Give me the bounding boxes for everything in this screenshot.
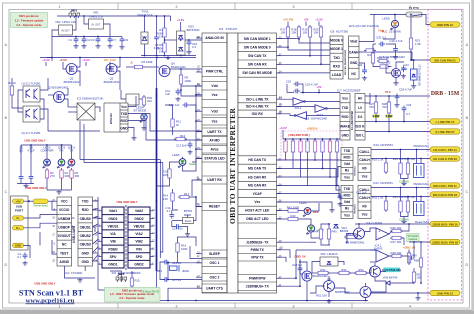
node +3.3V analog — [177, 18, 185, 31]
svg-text:Vdd: Vdd — [211, 109, 217, 113]
svg-text:Rs: Rs — [345, 169, 349, 173]
svg-text:4MHz: 4MHz — [182, 269, 190, 273]
svg-text:LED8: LED8 — [383, 17, 390, 21]
resistor R45 10K — [327, 227, 337, 241]
svg-text:13: 13 — [95, 234, 98, 237]
resistor R42 200E — [286, 206, 300, 213]
capacitor C20 0.2 — [376, 36, 386, 47]
svg-text:Q5 MMBT5401: Q5 MMBT5401 — [346, 241, 365, 245]
wire mid power rail y57 — [40, 57, 196, 59]
svg-text:25: 25 — [280, 246, 283, 249]
svg-text:R40 100K: R40 100K — [346, 232, 359, 236]
svg-text:17: 17 — [52, 234, 55, 237]
diode VD2 LM431 box — [320, 252, 338, 266]
svg-text:IC10 MCP2551: IC10 MCP2551 — [373, 143, 393, 147]
info box CAN pullups R29-R36 — [281, 131, 342, 160]
ground cap C2 — [81, 44, 86, 48]
svg-text:UART CTS: UART CTS — [206, 286, 223, 290]
svg-text:C25 560: C25 560 — [399, 218, 409, 222]
svg-text:SW CAN TRANSCEIVER: SW CAN TRANSCEIVER — [344, 49, 347, 75]
svg-text:GND: GND — [82, 251, 90, 255]
svg-text:+3.3V: +3.3V — [82, 58, 90, 62]
svg-text:TXD: TXD — [344, 187, 351, 191]
wire vbat top right — [412, 15, 422, 17]
resistor R19 10K — [302, 25, 311, 39]
svg-text:IC8 NCV7356: IC8 NCV7356 — [330, 30, 348, 34]
svg-text:R54: R54 — [358, 268, 364, 272]
wire LED feed rail — [21, 144, 72, 146]
resistor R53 300R — [337, 268, 351, 275]
svg-text:C18 0.1: C18 0.1 — [292, 263, 302, 267]
svg-text:R47 10K: R47 10K — [391, 240, 402, 244]
svg-text:10K: 10K — [292, 31, 297, 35]
svg-text:OBD TO UART INTERPRETER: OBD TO UART INTERPRETER — [228, 108, 237, 224]
wire LED5 net — [182, 157, 184, 159]
wire j1850 bus+ chain — [277, 265, 301, 286]
info box SW2 positions — [105, 288, 161, 303]
svg-text:Reset: Reset — [185, 220, 192, 223]
op-amp U IC2 FT232RL right pins — [78, 197, 98, 266]
switch SW1 — [69, 9, 80, 19]
svg-text:1uF: 1uF — [165, 92, 170, 96]
resistor R13 220 — [162, 167, 171, 180]
svg-text:IC7 MCZ33290EF: IC7 MCZ33290EF — [337, 89, 361, 93]
resistor R20 10K — [313, 25, 322, 39]
connector J1 DRB-15M outline — [428, 10, 462, 301]
ground C11 — [175, 97, 180, 101]
svg-text:+5V: +5V — [303, 18, 308, 22]
op-amp U IC10 MCP2551 hs-can — [341, 148, 371, 181]
svg-text:Q3 BSS84/2402: Q3 BSS84/2402 — [48, 86, 69, 90]
svg-text:C: C — [466, 190, 469, 194]
resistor R15 10K — [130, 276, 140, 288]
svg-text:100K: 100K — [181, 247, 188, 251]
svg-text:D+: D+ — [16, 226, 20, 230]
svg-text:BSS84/2402: BSS84/2402 — [104, 80, 120, 84]
svg-text:R48 10K: R48 10K — [391, 251, 402, 255]
svg-text:Vss: Vss — [344, 213, 350, 217]
resistor R36 510R pullup — [335, 139, 338, 154]
svg-text:330: 330 — [75, 174, 80, 178]
svg-text:R22 1.3K: R22 1.3K — [377, 56, 389, 60]
capacitor C19 4.7uF — [389, 39, 402, 53]
svg-text:220: 220 — [147, 99, 152, 103]
svg-text:IC3 SN65HVD(ST14): IC3 SN65HVD(ST14) — [77, 97, 104, 101]
svg-text:4: 4 — [409, 305, 411, 309]
node +5V iso — [316, 85, 321, 93]
wire 3.3V rail down — [46, 57, 52, 59]
svg-text:Vbat: Vbat — [350, 40, 358, 44]
svg-text:B: B — [466, 116, 469, 120]
svg-text:Vss: Vss — [362, 213, 368, 217]
resistor R30 510R pullup — [291, 139, 294, 154]
node GND PIN 13 — [430, 290, 460, 295]
resistor R47 10K — [390, 236, 403, 244]
wire hs-can termination network — [371, 144, 430, 186]
op-amp U IC8 NCV7356 swcan transceiver — [330, 36, 359, 79]
resistor R35 510R pullup — [328, 139, 331, 154]
wire swcan misc nets — [373, 65, 378, 67]
svg-text:DC_5.0V: DC_5.0V — [104, 58, 115, 62]
wire IC5 left pin stubs — [192, 38, 202, 288]
svg-text:TEST: TEST — [60, 251, 68, 255]
wire Q11 nets — [299, 259, 301, 266]
node +3.3V left — [42, 58, 50, 66]
svg-text:HOST ACT LED: HOST ACT LED — [245, 209, 270, 213]
svg-text:SW CAN PIN 01: SW CAN PIN 01 — [434, 58, 456, 62]
svg-text:CBUS3: CBUS3 — [80, 243, 91, 247]
capacitor C14 0.1 — [165, 206, 174, 219]
svg-text:Vss: Vss — [344, 175, 350, 179]
wire R23 net — [410, 15, 412, 37]
svg-text:(2) IC1 TLP281: (2) IC1 TLP281 — [21, 131, 41, 135]
svg-text:+5V: +5V — [316, 85, 321, 89]
svg-text:+3.3V: +3.3V — [177, 18, 185, 22]
svg-text:C: C — [5, 190, 8, 194]
svg-text:GND2: GND2 — [134, 263, 143, 267]
svg-text:B: B — [5, 116, 8, 120]
wire pullup tops — [283, 138, 340, 140]
op-amp U IC11 MCP2551 ms-can — [341, 186, 371, 219]
svg-text:OBD ACT LED: OBD ACT LED — [246, 217, 269, 221]
node +5V swcan — [303, 18, 308, 27]
inductor L1 ferrite bead — [33, 199, 48, 208]
wire j1850 bus- chain — [277, 241, 311, 243]
svg-text:13: 13 — [279, 96, 282, 99]
svg-text:09: 09 — [279, 103, 282, 106]
resistor R17b 10K — [280, 25, 289, 39]
svg-text:MMBT5640: MMBT5640 — [335, 290, 350, 294]
transistor Q6 MMBT3906 — [324, 277, 335, 292]
regulator VR1 L4931C.B — [89, 11, 104, 30]
wire Q12 nets — [386, 64, 392, 73]
connector P2 aux box — [126, 94, 139, 105]
svg-text:VD6 BAT46: VD6 BAT46 — [383, 276, 398, 280]
svg-text:USB GND ONLY: USB GND ONLY — [34, 282, 55, 286]
capacitor C20 4.7uF — [294, 83, 319, 94]
svg-text:SW CAN TX: SW CAN TX — [248, 54, 267, 58]
svg-text:BT MODE: BT MODE — [134, 109, 147, 113]
svg-text:RXD: RXD — [82, 208, 90, 212]
resistor R17 4K7 — [178, 192, 191, 199]
svg-text:0.1: 0.1 — [406, 112, 410, 116]
svg-text:PLC: PLC — [382, 30, 388, 34]
svg-text:VD5 MMBZ27VCL33: VD5 MMBZ27VCL33 — [420, 64, 422, 86]
svg-text:2: 2 — [176, 5, 178, 9]
svg-text:PESD2CAN: PESD2CAN — [413, 144, 428, 148]
svg-text:C26 4.7uF: C26 4.7uF — [399, 88, 412, 92]
svg-text:8: 8 — [54, 242, 56, 245]
capacitor C5 0.1 — [19, 145, 24, 181]
svg-text:VIA2: VIA2 — [135, 232, 142, 236]
resistor R14 10K — [163, 191, 174, 203]
svg-text:VBUS1: VBUS1 — [108, 224, 119, 228]
svg-text:L4931 C.B: L4931 C.B — [89, 15, 102, 19]
svg-text:5-0: 5-0 — [358, 115, 363, 119]
resistor R51 10K — [316, 294, 327, 298]
diode VD6 BAT46 — [383, 276, 398, 286]
svg-text:3V3OUT: 3V3OUT — [58, 234, 71, 238]
svg-text:(1) IC1 TLP281: (1) IC1 TLP281 — [21, 82, 41, 86]
svg-text:VD2 LM431C: VD2 LM431C — [320, 252, 338, 256]
svg-text:C20 0.2: C20 0.2 — [376, 36, 386, 40]
svg-text:GND: GND — [15, 244, 21, 248]
svg-text:ISO L: ISO L — [356, 134, 365, 138]
svg-text:HS CAN H PIN 06: HS CAN H PIN 06 — [433, 157, 457, 161]
svg-text:C3: C3 — [91, 38, 95, 42]
resistor R1 1K — [8, 81, 16, 97]
resistor R3 270 — [45, 168, 55, 180]
svg-text:PDEN: PDEN — [108, 247, 118, 251]
svg-text:PWR CTRL: PWR CTRL — [206, 70, 223, 74]
svg-text:CAN-H: CAN-H — [359, 158, 370, 162]
ground cap C1 — [73, 44, 78, 48]
svg-text:R6 100E: R6 100E — [142, 60, 153, 64]
svg-text:VPW TX: VPW TX — [251, 255, 264, 259]
capacitor C2 — [82, 37, 91, 44]
wire isolation bus left — [97, 197, 99, 290]
node +3.3V swcan — [315, 18, 323, 27]
svg-text:D: D — [466, 263, 469, 267]
svg-text:C27 1uF: C27 1uF — [356, 191, 367, 195]
wire SW2 nets — [98, 287, 117, 290]
svg-text:7: 7 — [95, 251, 97, 254]
svg-text:510: 510 — [369, 105, 374, 109]
svg-text:MODE 1: MODE 1 — [330, 47, 343, 51]
op-amp U IC5 right pin column — [238, 33, 282, 293]
resistor R24 4.99K — [364, 49, 376, 57]
svg-text:MS CAN RX: MS CAN RX — [248, 184, 267, 188]
svg-text:R52: R52 — [320, 268, 326, 272]
svg-text:C7: C7 — [113, 38, 117, 42]
svg-text:MODE 0: MODE 0 — [330, 39, 343, 43]
capacitor C27 1uF vcap — [356, 191, 367, 195]
capacitor C10 3.3 — [187, 40, 198, 50]
svg-text:помеха: помеха — [408, 238, 417, 241]
svg-text:270: 270 — [50, 174, 55, 178]
wire VR1 input — [84, 16, 89, 24]
wire USB VBUS to ferrite — [24, 200, 34, 202]
svg-text:R34 10K R35 10K: R34 10K R35 10K — [393, 195, 416, 199]
svg-text:SW CAN MODE 0: SW CAN MODE 0 — [244, 45, 271, 49]
transistor Q5 MMBT5401 — [346, 228, 365, 245]
svg-text:GND1: GND1 — [108, 263, 117, 267]
svg-text:CBUS2: CBUS2 — [80, 234, 91, 238]
svg-text:15: 15 — [52, 225, 55, 228]
svg-text:LED5: LED5 — [173, 153, 180, 157]
capacitor C4 0.1 — [17, 252, 27, 265]
svg-text:RXD: RXD — [333, 64, 341, 68]
svg-text:VIA: VIA — [110, 232, 116, 236]
svg-text:C21: C21 — [357, 63, 363, 67]
LED LED4 BT MODE — [134, 106, 148, 131]
capacitor C16 16 — [163, 260, 182, 265]
svg-text:IC2 FT232RL: IC2 FT232RL — [65, 271, 83, 275]
svg-text:UART RX: UART RX — [207, 178, 222, 182]
wire ADuM isolation barrier — [125, 205, 127, 270]
svg-text:Rs: Rs — [345, 207, 349, 211]
wire LED resistor drops — [46, 180, 48, 190]
svg-text:20: 20 — [52, 199, 55, 202]
svg-text:Vss: Vss — [342, 97, 348, 101]
svg-text:16: 16 — [52, 216, 55, 219]
svg-text:GND PIN 13: GND PIN 13 — [437, 291, 453, 295]
svg-text:( R29-R36 510R ): ( R29-R36 510R ) — [288, 133, 310, 137]
svg-text:3.3: 3.3 — [192, 45, 196, 49]
svg-text:MCP2551: MCP2551 — [355, 165, 357, 175]
svg-text:R0: R0 — [362, 166, 366, 170]
note R_BT cyan highlighted — [382, 268, 401, 273]
resistor R6 100E — [133, 60, 153, 69]
LED LED2 COMPWR blue — [40, 146, 53, 169]
resistor R48 10K — [390, 251, 403, 258]
transistor Q3 BSS84 — [48, 86, 69, 108]
svg-text:A: A — [466, 43, 469, 47]
capacitor C6 4.7uF — [27, 145, 34, 181]
svg-text:⚠: ⚠ — [130, 61, 133, 65]
wire swcan mode nets — [277, 38, 300, 40]
svg-text:IC11 MCP2551: IC11 MCP2551 — [373, 181, 393, 185]
capacitor C17 16 — [163, 277, 182, 282]
svg-text:TX-Oкат RS-33: TX-Oкат RS-33 — [141, 290, 160, 294]
svg-text:CANH: CANH — [349, 50, 359, 54]
op-amp U IC5 left pin column — [197, 33, 227, 293]
svg-text:USB GND ONLY: USB GND ONLY — [116, 200, 137, 204]
wire host act net — [277, 210, 287, 212]
svg-text:SW1: SW1 — [71, 9, 78, 13]
svg-text:RESET: RESET — [209, 205, 220, 209]
svg-text:R45: R45 — [332, 230, 338, 234]
svg-text:GND: GND — [120, 127, 128, 131]
svg-text:Vdd1: Vdd1 — [109, 209, 117, 213]
wire iso out nets — [388, 96, 390, 100]
wire UART RX net — [192, 180, 202, 196]
svg-text:ISO RX: ISO RX — [252, 112, 264, 116]
svg-text:R21+Q5 (10K PushPull): R21+Q5 (10K PushPull) — [349, 24, 379, 28]
regulator VR2 L4931C33 — [55, 20, 76, 35]
button BT501 reset — [172, 197, 196, 224]
node HS CAN H PIN 06 — [430, 156, 460, 161]
svg-text:43: 43 — [197, 138, 200, 141]
svg-text:Vss: Vss — [254, 200, 260, 204]
svg-text:2,3 - Operate mode: 2,3 - Operate mode — [16, 23, 42, 27]
op-amp IC6.2 inverter — [293, 98, 305, 110]
svg-text:DRB - 15M: DRB - 15M — [431, 91, 460, 97]
wire CAN tx rx runs — [286, 159, 316, 161]
capacitor C23 130 — [401, 63, 409, 78]
capacitor C9 — [110, 37, 129, 50]
LED LED6 red host act — [300, 201, 319, 217]
svg-text:STATUS LED: STATUS LED — [204, 156, 225, 160]
svg-text:AT-MD: AT-MD — [209, 138, 220, 142]
svg-text:AGND: AGND — [59, 260, 69, 264]
svg-text:36: 36 — [279, 45, 282, 48]
svg-text:VCAP: VCAP — [253, 192, 263, 196]
node DC 5.0V — [104, 58, 115, 66]
svg-text:R53: R53 — [341, 268, 347, 272]
wire obd act net — [277, 218, 287, 220]
wire VR2 output — [52, 30, 59, 58]
wire R7R8 chain — [164, 16, 166, 26]
svg-text:L0: L0 — [358, 106, 362, 110]
svg-text:C19: C19 — [286, 80, 292, 84]
node J1850 BUS+ PIN 02 — [430, 239, 460, 244]
svg-text:VBUS2: VBUS2 — [134, 224, 145, 228]
resistor R8 100K — [156, 41, 166, 54]
wire USB data lines — [24, 215, 58, 219]
capacitor C3 — [91, 37, 100, 44]
resistor R29 510R pullup — [284, 139, 287, 154]
svg-text:SW CAN RX: SW CAN RX — [248, 63, 268, 67]
svg-text:Vss: Vss — [362, 175, 368, 179]
wire gnd pin 13 run — [370, 292, 430, 294]
svg-text:IN OUT: IN OUT — [61, 30, 70, 33]
op-amp U IC5 body — [227, 33, 238, 293]
svg-text:VR2 L4931 C33: VR2 L4931 C33 — [55, 20, 76, 24]
resistor R7 402K — [156, 26, 166, 39]
transistor Q1 BSS84 — [64, 64, 80, 84]
svg-text:1: 1 — [59, 5, 61, 9]
wire ground bus vertical — [156, 88, 158, 271]
svg-text:SW CAN MODE 1: SW CAN MODE 1 — [244, 37, 271, 41]
svg-text:VIB2: VIB2 — [135, 240, 142, 244]
svg-text:ISO L-LINE TX: ISO L-LINE TX — [246, 97, 269, 101]
svg-text:Vdd: Vdd — [344, 200, 350, 204]
connector X1 USB PORT — [11, 196, 29, 250]
wire bus bends — [156, 58, 158, 89]
capacitor C26 4.7uF — [395, 88, 413, 101]
svg-text:SPU: SPU — [110, 255, 117, 259]
op-amp IC4.2 LM393 — [366, 221, 389, 240]
wire sleep net — [190, 246, 202, 259]
svg-text:+5V: +5V — [15, 199, 20, 203]
svg-text:TXD: TXD — [342, 106, 349, 110]
resistor R52 300R — [316, 268, 330, 275]
wire Q4 gate — [145, 66, 160, 68]
svg-text:K-L-LINE DRIVER: K-L-LINE DRIVER — [352, 111, 354, 130]
wire Q4 drain to PWR CTRL — [170, 68, 202, 70]
svg-text:Vss: Vss — [212, 93, 218, 97]
svg-text:R17: R17 — [184, 192, 190, 196]
svg-text:+3.3V: +3.3V — [279, 126, 287, 130]
svg-text:10K: 10K — [163, 197, 168, 201]
svg-text:WAKE: WAKE — [340, 124, 351, 128]
zone numbers bottom — [59, 303, 412, 309]
svg-text:10K: 10K — [281, 31, 286, 35]
wire reset net — [191, 197, 202, 207]
capacitor C13 5n6 — [176, 142, 193, 155]
svg-text:SW1 positions:: SW1 positions: — [19, 14, 39, 18]
svg-text:RXD: RXD — [344, 156, 352, 160]
svg-text:2,3 - Operate mode: 2,3 - Operate mode — [119, 296, 145, 300]
wire R9 net — [180, 69, 182, 73]
svg-text:0.1: 0.1 — [167, 209, 171, 213]
op-amp U IC3 SN65 (not fitted) — [77, 97, 104, 121]
svg-text:STN Scan v1.1 BT: STN Scan v1.1 BT — [19, 289, 84, 298]
svg-text:PWM TX: PWM TX — [251, 248, 265, 252]
info note green right — [141, 290, 160, 294]
resistor R49 2K — [407, 251, 417, 265]
wire cap rail — [52, 36, 110, 38]
svg-text:AVss: AVss — [210, 147, 218, 151]
svg-text:RXD: RXD — [344, 194, 352, 198]
node USB D- pin — [13, 216, 24, 220]
svg-text:Vcc: Vcc — [121, 105, 127, 109]
svg-text:PLC: PLC — [385, 90, 391, 94]
capacitor C7 — [108, 37, 117, 44]
svg-text:D-: D- — [16, 216, 19, 220]
svg-text:CAN-L: CAN-L — [359, 150, 369, 154]
